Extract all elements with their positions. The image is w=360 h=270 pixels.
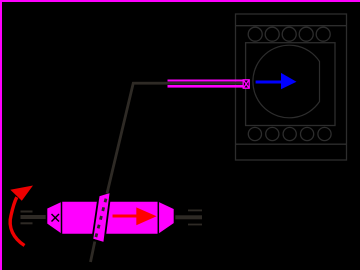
X mark on magnet left cap xyxy=(52,214,60,222)
bearing left bottom mark xyxy=(21,222,33,224)
frame border top xyxy=(0,0,360,2)
galvanometer bottom terminal row (5 circles) xyxy=(248,127,331,140)
magnet left cap line xyxy=(61,201,63,235)
axle right shaft xyxy=(175,215,203,219)
axle left shaft xyxy=(21,215,48,219)
connecting wire upper diagonal xyxy=(107,82,134,193)
bearing left top mark xyxy=(21,211,33,213)
magnet right cap line xyxy=(157,201,159,235)
galvanometer terminal X-box xyxy=(243,80,249,88)
lead wire magenta sleeve bottom xyxy=(168,85,244,88)
galvanometer inner dial frame xyxy=(246,43,335,126)
bearing right bottom mark xyxy=(188,224,202,226)
magnetization arrow head xyxy=(136,207,156,225)
galvanometer needle (blue arrow) shaft xyxy=(256,81,283,84)
galvanometer top panel line xyxy=(236,25,347,27)
bearing right top mark xyxy=(188,210,202,212)
galvanometer bottom panel line xyxy=(236,143,347,145)
galvanometer top terminal row (5 circles) xyxy=(248,27,330,41)
magnet body (bar magnet, magenta) xyxy=(47,201,175,235)
galvanometer G outer case xyxy=(236,14,347,160)
lead wire horizontal segment xyxy=(133,82,247,85)
lead wire magenta sleeve top xyxy=(168,80,244,82)
rotation arrow head xyxy=(10,186,33,201)
connecting wire hidden through coil (dashed) xyxy=(95,199,106,242)
connecting wire lower diagonal xyxy=(91,242,95,263)
galvanometer dial face xyxy=(253,45,320,118)
galvanometer needle head xyxy=(281,73,297,89)
magnetization arrow (red) shaft xyxy=(113,215,139,218)
rotation arrow (red curved) arc xyxy=(10,197,24,245)
frame border left xyxy=(0,0,2,270)
coil band around magnet xyxy=(92,192,110,243)
